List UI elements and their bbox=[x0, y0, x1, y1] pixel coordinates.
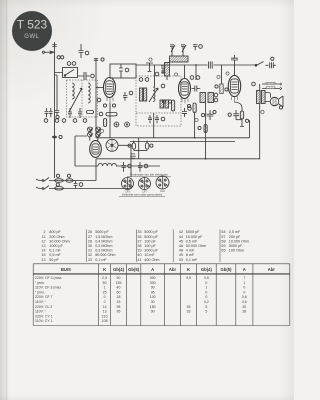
svg-text:39: 39 bbox=[137, 249, 141, 253]
capacitor 36 bbox=[215, 65, 228, 94]
parts separator 2 bbox=[136, 230, 138, 263]
caption gedeelte bbox=[119, 193, 165, 197]
wire oscillator riser bbox=[154, 65, 156, 87]
node callouts below tube CF7 bbox=[162, 100, 171, 103]
mains switch upper bbox=[36, 178, 49, 182]
table header labels bbox=[61, 267, 275, 272]
table data right Gb4 column bbox=[204, 276, 209, 314]
svg-text:“ (min.: “ (min. bbox=[35, 281, 45, 285]
svg-text:0,3 MOhm: 0,3 MOhm bbox=[95, 244, 112, 248]
svg-text:210: 210 bbox=[102, 314, 108, 318]
svg-text:90: 90 bbox=[151, 286, 155, 290]
dashed divider box A bbox=[81, 80, 83, 117]
output terminal wires bbox=[262, 82, 282, 90]
capacitor 54 bbox=[122, 162, 132, 172]
electrolytic cap 40b bbox=[145, 142, 153, 151]
coil L2 bbox=[88, 83, 90, 103]
node 42 callout bbox=[226, 72, 229, 75]
svg-text:0: 0 bbox=[104, 295, 106, 299]
capacitor 8 branch bbox=[55, 75, 60, 119]
svg-text:0: 0 bbox=[104, 300, 106, 304]
svg-text:100 pF: 100 pF bbox=[144, 239, 156, 243]
svg-text:1: 1 bbox=[104, 286, 106, 290]
caption onderzijde bbox=[127, 173, 171, 177]
svg-text:1: 1 bbox=[243, 281, 245, 285]
svg-text:2,5: 2,5 bbox=[102, 276, 107, 280]
wire speaker connect bbox=[266, 93, 271, 102]
mains switch lower bbox=[36, 186, 49, 190]
mains wire upper bbox=[49, 180, 96, 182]
svg-text:32: 32 bbox=[88, 253, 92, 257]
svg-text:180: 180 bbox=[150, 305, 156, 309]
svg-text:13: 13 bbox=[103, 310, 107, 314]
svg-text:1000 pF: 1000 pF bbox=[49, 244, 63, 248]
capacitor 42 above bbox=[231, 55, 238, 65]
table frame bbox=[33, 264, 290, 326]
parts column 5 bbox=[221, 230, 249, 252]
wire antenna lead vertical bbox=[54, 42, 56, 178]
svg-text:A: A bbox=[243, 267, 246, 272]
wire filament line bbox=[75, 165, 160, 167]
wire T1 to caps bbox=[167, 52, 183, 81]
svg-text:0,5 mF: 0,5 mF bbox=[229, 230, 241, 234]
svg-text:59: 59 bbox=[221, 244, 225, 248]
svg-text:Gb(4): Gb(4) bbox=[113, 267, 125, 272]
wire top bus bbox=[136, 64, 255, 66]
svg-text:4 mF: 4 mF bbox=[186, 249, 195, 253]
svg-text:100 Ohm: 100 Ohm bbox=[229, 249, 244, 253]
svg-text:80.000 Ohm: 80.000 Ohm bbox=[95, 253, 115, 257]
IF transformer 1 winding vertical bbox=[165, 63, 170, 77]
svg-text:5000 pF: 5000 pF bbox=[95, 230, 109, 234]
table data right A column bbox=[242, 276, 247, 314]
wire bus chassis bbox=[96, 158, 260, 160]
svg-text:200 pF: 200 pF bbox=[229, 235, 241, 239]
junction dots caps bbox=[133, 141, 135, 143]
svg-text:35: 35 bbox=[187, 305, 191, 309]
svg-text:100 pF: 100 pF bbox=[144, 244, 156, 248]
svg-text:K: K bbox=[187, 267, 190, 272]
svg-text:40: 40 bbox=[137, 253, 141, 257]
node 49 callout bbox=[261, 110, 264, 113]
switch contact top right bbox=[255, 62, 263, 67]
svg-text:220V: CL 2: 220V: CL 2 bbox=[35, 305, 52, 309]
svg-text:15: 15 bbox=[41, 253, 45, 257]
svg-text:10.000 Ohm: 10.000 Ohm bbox=[229, 239, 249, 243]
junction top bus bbox=[195, 64, 197, 66]
ground cap 14 bbox=[146, 63, 153, 72]
capacitor 44 bbox=[182, 107, 191, 117]
capacitor pair on lead bbox=[45, 108, 53, 117]
svg-text:30: 30 bbox=[242, 305, 246, 309]
svg-text:1: 1 bbox=[205, 286, 207, 290]
svg-text:“ (min.: “ (min. bbox=[35, 290, 45, 294]
socket CL2 bottom view bbox=[156, 176, 169, 189]
wire vert tube1 down bbox=[109, 103, 111, 138]
svg-text:13: 13 bbox=[41, 244, 45, 248]
svg-text:135: 135 bbox=[116, 281, 122, 285]
svg-text:36: 36 bbox=[137, 235, 141, 239]
table header rule double bbox=[33, 273, 290, 274]
capacitor 35 bbox=[192, 86, 201, 92]
output transformer windings bbox=[257, 91, 266, 104]
svg-text:0: 0 bbox=[243, 286, 245, 290]
svg-text:0,1 mF: 0,1 mF bbox=[95, 258, 107, 262]
svg-text:100: 100 bbox=[150, 295, 156, 299]
node callouts in box bbox=[139, 78, 165, 88]
grid wire tube CF3 bbox=[96, 87, 104, 89]
capacitor 59 across mains bbox=[74, 181, 83, 189]
wire mains right drop bbox=[130, 182, 132, 189]
svg-text:14: 14 bbox=[103, 305, 107, 309]
svg-text:33: 33 bbox=[187, 310, 191, 314]
svg-text:41: 41 bbox=[137, 258, 141, 262]
svg-text:60: 60 bbox=[117, 290, 121, 294]
wire vert osc bbox=[153, 113, 155, 138]
coil 17 hatched bbox=[144, 88, 147, 101]
filament choke coil bbox=[98, 163, 116, 166]
mains wire lower bbox=[49, 188, 131, 190]
trimmer circles bbox=[114, 122, 129, 127]
socket CY1 bbox=[106, 139, 118, 151]
svg-text:Gb(5): Gb(5) bbox=[221, 267, 233, 272]
capacitor 45 bbox=[201, 110, 216, 120]
svg-text:0,5 mF: 0,5 mF bbox=[49, 253, 61, 257]
wire left mains riser bbox=[95, 159, 97, 181]
svg-text:50.000 Ohm: 50.000 Ohm bbox=[186, 244, 206, 248]
svg-text:30.000 Ohm: 30.000 Ohm bbox=[49, 239, 69, 243]
capacitor 57 bbox=[138, 162, 148, 172]
resistor 15 vertical bbox=[104, 119, 107, 127]
cathode wire bbox=[235, 102, 243, 111]
svg-text:0: 0 bbox=[205, 290, 207, 294]
svg-text:37: 37 bbox=[137, 239, 141, 243]
svg-text:400 Ohm: 400 Ohm bbox=[144, 258, 159, 262]
wire lead to pickup box bbox=[55, 73, 82, 77]
svg-text:0,6: 0,6 bbox=[242, 300, 247, 304]
svg-text:12: 12 bbox=[41, 239, 45, 243]
capacitor 23 bbox=[123, 91, 133, 101]
svg-text:5: 5 bbox=[205, 310, 207, 314]
fuse 63 bbox=[55, 183, 64, 190]
wire to tube CF7 grid top bbox=[185, 65, 197, 80]
svg-text:42: 42 bbox=[179, 230, 183, 234]
switch box pickup bbox=[63, 68, 78, 78]
capacitor 56 series right bbox=[266, 57, 276, 68]
svg-text:28: 28 bbox=[242, 310, 246, 314]
parts column 3 bbox=[137, 230, 159, 262]
parts separator 1 bbox=[86, 230, 88, 263]
svg-text:800 pF: 800 pF bbox=[49, 230, 61, 234]
svg-text:26: 26 bbox=[88, 230, 92, 234]
coil 19 hatched pair bbox=[160, 100, 169, 108]
svg-text:0,2: 0,2 bbox=[204, 300, 209, 304]
padder caps bottom of box bbox=[148, 115, 165, 123]
fuse 61 bbox=[55, 174, 64, 182]
svg-text:1,5 MOhm: 1,5 MOhm bbox=[95, 235, 112, 239]
node 60 callout bbox=[100, 129, 103, 132]
parts column 1 bbox=[41, 230, 69, 262]
wire bus anode bbox=[96, 137, 250, 139]
svg-text:5: 5 bbox=[205, 305, 207, 309]
svg-text:A: A bbox=[151, 267, 154, 272]
svg-text:2: 2 bbox=[43, 230, 45, 234]
table data Gb4 column bbox=[116, 276, 122, 314]
capacitor 4 below box bbox=[68, 108, 72, 118]
logo circle T523 GWL bbox=[12, 11, 52, 51]
wire bus agc bbox=[130, 141, 235, 143]
table data right K column bbox=[186, 276, 191, 314]
svg-text:95: 95 bbox=[151, 290, 155, 294]
parts column 2 bbox=[88, 230, 116, 262]
capacitor 26 series in bus bbox=[209, 62, 213, 69]
svg-text:0,1 mF: 0,1 mF bbox=[186, 258, 198, 262]
svg-text:T 523: T 523 bbox=[17, 18, 48, 32]
table column lines bbox=[99, 264, 253, 326]
svg-text:35: 35 bbox=[137, 230, 141, 234]
table data A column bbox=[150, 276, 156, 314]
svg-text:110V: “: 110V: “ bbox=[35, 300, 47, 304]
tube CF7 bbox=[179, 79, 191, 104]
tube CY1 bbox=[90, 141, 102, 158]
svg-text:95: 95 bbox=[117, 310, 121, 314]
svg-text:65: 65 bbox=[221, 249, 225, 253]
resistor 20 vertical bbox=[172, 100, 175, 111]
svg-text:58: 58 bbox=[221, 239, 225, 243]
svg-text:Gedeelte van onder gemonteerd: Gedeelte van onder gemonteerd bbox=[122, 193, 163, 197]
svg-text:45: 45 bbox=[179, 239, 183, 243]
svg-text:54: 54 bbox=[221, 230, 225, 234]
svg-text:0,4 MOhm: 0,4 MOhm bbox=[95, 239, 112, 243]
connector on lead bbox=[52, 135, 62, 138]
table row labels bbox=[35, 276, 62, 323]
svg-text:38: 38 bbox=[137, 244, 141, 248]
page edge line bbox=[0, 0, 7, 400]
svg-text:K: K bbox=[103, 267, 106, 272]
svg-text:0: 0 bbox=[205, 295, 207, 299]
capacitor 1 on lead bbox=[52, 45, 56, 47]
wire spine left bbox=[95, 58, 97, 138]
tap symbol bbox=[130, 154, 136, 159]
dashed box oscillator bbox=[136, 76, 181, 126]
capacitor 3 bbox=[81, 72, 94, 80]
svg-text:30: 30 bbox=[88, 244, 92, 248]
svg-text:11: 11 bbox=[42, 235, 46, 239]
svg-text:5000 pF: 5000 pF bbox=[144, 235, 158, 239]
svg-text:15: 15 bbox=[117, 300, 121, 304]
resistor 11 bbox=[87, 111, 94, 114]
socket CF7 bottom view bbox=[139, 178, 151, 190]
wire cap bottoms join bbox=[134, 150, 147, 152]
coil 18 with arrow bbox=[149, 87, 158, 102]
socket CF3 bottom view bbox=[122, 178, 134, 190]
svg-text:50: 50 bbox=[103, 281, 107, 285]
parts list bbox=[41, 230, 249, 263]
capacitor at spine top bbox=[94, 58, 104, 61]
svg-text:8 mF: 8 mF bbox=[186, 253, 195, 257]
svg-text:0,1 mF: 0,1 mF bbox=[49, 249, 61, 253]
svg-text:300: 300 bbox=[150, 276, 156, 280]
capacitor 2 earth stub bbox=[79, 44, 84, 58]
svg-text:90: 90 bbox=[151, 310, 155, 314]
resistor 31 vertical bbox=[187, 103, 196, 113]
svg-text:25: 25 bbox=[103, 290, 107, 294]
node callouts above tube CF7 bbox=[190, 76, 200, 80]
lamp plug circles bbox=[88, 127, 102, 137]
trimmer arrows top caps IF1 bbox=[170, 45, 186, 52]
svg-text:200 Ohm: 200 Ohm bbox=[49, 235, 64, 239]
node callouts tube CF3 pins bbox=[103, 104, 115, 107]
svg-text:0,5: 0,5 bbox=[204, 276, 209, 280]
IF transformer 1 winding horizontal bbox=[170, 56, 189, 62]
parts separator 3 bbox=[172, 230, 174, 263]
svg-text:46: 46 bbox=[179, 244, 183, 248]
svg-text:10 mF: 10 mF bbox=[144, 253, 155, 257]
fuse 62 bbox=[66, 174, 73, 182]
svg-text:5000 pF: 5000 pF bbox=[144, 230, 158, 234]
node 34 callout bbox=[174, 73, 177, 76]
wire vert 205 bbox=[205, 103, 207, 159]
svg-text:15.000 pF: 15.000 pF bbox=[186, 235, 203, 239]
svg-text:49: 49 bbox=[179, 253, 183, 257]
svg-text:110V: “: 110V: “ bbox=[35, 310, 47, 314]
svg-text:30: 30 bbox=[151, 300, 155, 304]
capacitor 5 below box bbox=[78, 108, 82, 118]
svg-text:0,5 mF: 0,5 mF bbox=[186, 239, 198, 243]
svg-text:7: 7 bbox=[243, 276, 245, 280]
svg-text:9,5: 9,5 bbox=[186, 276, 191, 280]
svg-text:31: 31 bbox=[88, 249, 92, 253]
node 14 callout bbox=[149, 58, 152, 61]
svg-text:5000 pF: 5000 pF bbox=[186, 230, 200, 234]
wire socket to bus bbox=[118, 145, 131, 177]
svg-text:27: 27 bbox=[88, 235, 92, 239]
svg-text:57: 57 bbox=[221, 235, 225, 239]
svg-text:0: 0 bbox=[243, 290, 245, 294]
svg-text:0,3 MOhm: 0,3 MOhm bbox=[95, 249, 112, 253]
node callout left of tube bbox=[97, 98, 101, 102]
svg-text:BUIS: BUIS bbox=[61, 267, 71, 272]
component box band filter bbox=[110, 64, 136, 78]
tube CF3 bbox=[104, 78, 116, 103]
svg-text:300: 300 bbox=[150, 281, 156, 285]
svg-text:90: 90 bbox=[117, 276, 121, 280]
svg-text:95: 95 bbox=[117, 305, 121, 309]
svg-text:53: 53 bbox=[179, 258, 183, 262]
antenna terminal bbox=[42, 51, 55, 55]
vertical between buses bbox=[138, 138, 140, 159]
wire heater riser bbox=[75, 136, 87, 166]
svg-text:48: 48 bbox=[179, 249, 183, 253]
svg-text:220V: CY 1: 220V: CY 1 bbox=[35, 314, 53, 318]
capacitor 24 bbox=[193, 45, 202, 51]
dashed divider bbox=[136, 112, 181, 114]
capacitor 43 bbox=[228, 110, 242, 120]
svg-text:Abr: Abr bbox=[268, 267, 276, 272]
wire inner box right bbox=[249, 120, 251, 138]
cathode resistor 41 bbox=[240, 111, 248, 122]
svg-text:108: 108 bbox=[102, 319, 108, 323]
svg-text:50 pF: 50 pF bbox=[49, 258, 59, 262]
node callouts below coils bbox=[44, 119, 87, 123]
svg-text:5000 pF: 5000 pF bbox=[229, 244, 243, 248]
svg-text:40: 40 bbox=[117, 286, 121, 290]
svg-text:220V: CF 3 (max.: 220V: CF 3 (max. bbox=[35, 276, 62, 280]
svg-text:44: 44 bbox=[179, 235, 183, 239]
svg-text:Abr: Abr bbox=[169, 267, 177, 272]
svg-text:Gb(4): Gb(4) bbox=[201, 267, 213, 272]
svg-text:Gb(5): Gb(5) bbox=[128, 267, 140, 272]
wire vert 194 bbox=[194, 112, 196, 138]
svg-text:23: 23 bbox=[41, 258, 45, 262]
wire plug to tube bbox=[90, 137, 98, 141]
resistor 12 below tube bbox=[99, 112, 117, 116]
IF transformer 2 windings bbox=[200, 93, 214, 103]
ground stub bbox=[240, 119, 244, 127]
resistor 30 vertical bbox=[198, 125, 207, 133]
wire B+ vertical right bbox=[259, 84, 261, 159]
svg-text:1000 pF: 1000 pF bbox=[144, 249, 158, 253]
svg-text:28: 28 bbox=[88, 239, 92, 243]
coil 16 hatched bbox=[140, 88, 143, 101]
socket labels bbox=[125, 189, 165, 194]
tuning arrow bbox=[69, 88, 82, 112]
svg-text:0,6: 0,6 bbox=[242, 295, 247, 299]
parts separator 4 bbox=[219, 230, 221, 263]
node 2 callout bbox=[85, 51, 89, 55]
node callouts 8 1 bbox=[57, 56, 64, 59]
wire tube CL2 top bbox=[234, 65, 236, 76]
tube CL2 bbox=[228, 75, 240, 102]
speaker bbox=[270, 96, 283, 109]
svg-text:220V: CF 7: 220V: CF 7 bbox=[35, 295, 53, 299]
table data K column bbox=[102, 276, 108, 323]
voltage table bbox=[33, 264, 290, 326]
node 37 callout bbox=[217, 75, 220, 78]
svg-text:18: 18 bbox=[117, 295, 121, 299]
electrolytic cap 40a bbox=[128, 142, 136, 151]
dashed box antenna coils bbox=[67, 80, 98, 117]
parts column 4 bbox=[179, 230, 206, 262]
node 81 callouts bbox=[67, 62, 76, 66]
svg-text:GWL: GWL bbox=[24, 34, 40, 40]
node callout output bbox=[252, 82, 256, 86]
svg-text:110V: CY 1: 110V: CY 1 bbox=[35, 319, 53, 323]
svg-text:110V: CF 3 (max.: 110V: CF 3 (max. bbox=[35, 286, 62, 290]
svg-text:0: 0 bbox=[205, 281, 207, 285]
capacitor 25 pair bbox=[155, 66, 165, 76]
svg-text:33: 33 bbox=[88, 258, 92, 262]
node 31 callout bbox=[195, 118, 198, 121]
coil L1 bbox=[72, 83, 74, 99]
svg-text:14: 14 bbox=[41, 249, 45, 253]
node callouts right of IF2 bbox=[214, 93, 218, 102]
